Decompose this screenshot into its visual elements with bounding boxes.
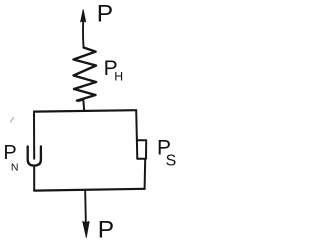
wire left branch lower [33, 166, 35, 191]
wire bottom rail of frame [34, 189, 144, 191]
svg-text:H: H [114, 70, 123, 84]
spring (Hooke element) [74, 48, 97, 101]
svg-text:S: S [166, 152, 177, 169]
wire left branch rod (into dashpot) [33, 112, 35, 159]
stray scan mark [11, 118, 14, 122]
friction slider box (St. Venant element) [137, 140, 146, 158]
wire right branch lower lead [144, 159, 147, 189]
wire top rail of frame [34, 110, 136, 111]
wire spring to frame [83, 99, 84, 111]
svg-text:P: P [98, 217, 114, 243]
dashpot cup (Newton viscous element) [28, 146, 41, 165]
svg-text:N: N [11, 161, 19, 173]
wire right branch upper lead [136, 110, 137, 159]
wire bottom arrow shaft [84, 191, 87, 222]
arrowhead bottom (force P down) [83, 221, 90, 237]
arrowhead top (force P up) [81, 10, 86, 23]
wire top arrow shaft [82, 21, 85, 48]
svg-text:P: P [97, 1, 113, 28]
